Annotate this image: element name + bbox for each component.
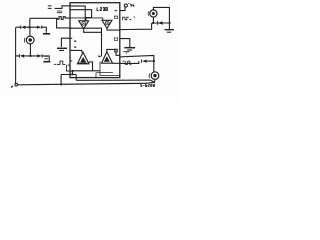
- wire A1 output: [84, 29, 102, 33]
- diode D8: [141, 60, 143, 63]
- wire J1 row: [73, 70, 101, 72]
- icon pulse right mid: [123, 52, 129, 54]
- pin box right 1: [114, 16, 117, 18]
- wire bottom edge extra: [97, 72, 114, 74]
- icon pulse right top: [123, 17, 135, 20]
- wire diode row 1: [16, 27, 47, 33]
- node J1: [72, 70, 74, 72]
- caption S-6298: [141, 84, 155, 86]
- wire riser to Vin2: [29, 18, 31, 27]
- wire B1 output: [89, 62, 93, 71]
- wire Vin3 pulse into box: [54, 61, 73, 71]
- arrow into B2: [98, 55, 101, 57]
- diode D4: [37, 54, 41, 57]
- ground left mid: [57, 47, 67, 49]
- driver A1 triangle (down): [79, 21, 89, 29]
- wire enable branch down: [57, 18, 70, 28]
- ground bar row1: [43, 33, 50, 35]
- motor M1 left: [26, 36, 34, 44]
- wire load stub: [152, 17, 154, 23]
- wire input2 inside to A2: [70, 18, 103, 20]
- driver B2 triangle (up): [102, 52, 113, 63]
- node junction row2: [29, 55, 31, 57]
- pin nub left y61: [70, 61, 72, 62]
- node junction top right: [152, 22, 154, 24]
- icon dashes bottom left: [44, 56, 48, 58]
- wire rail drop: [60, 75, 62, 85]
- ground right mid: [124, 47, 135, 49]
- op-amp U1 L298 package outline: [70, 3, 120, 78]
- wire Vs pin to terminal: [120, 7, 125, 11]
- pin box right 3: [114, 49, 117, 52]
- pin nub left y38: [70, 38, 72, 39]
- pin nub left y50: [70, 50, 72, 51]
- wire ground rail bottom: [18, 83, 146, 85]
- pin nub left y28: [70, 28, 72, 29]
- wire M1 stubs: [29, 27, 32, 56]
- label L298: [97, 8, 107, 11]
- wire inner bottom lines: [96, 62, 120, 78]
- wire B2 output to pin: [113, 62, 120, 64]
- wire GND pin left: [61, 38, 70, 47]
- node Vin1 input waveform: [48, 6, 52, 8]
- diode D1: [20, 26, 22, 29]
- diode D7: [157, 21, 159, 25]
- label +Vs: [130, 4, 134, 7]
- motor M3 bottom right: [151, 72, 159, 80]
- wire M2 top to rail: [153, 7, 169, 29]
- pin nub inner x75: [74, 41, 76, 42]
- wire A2 output to OUT pin: [107, 29, 120, 31]
- wire icon to J node: [71, 71, 73, 74]
- wire OUT4 to load: [120, 55, 154, 71]
- node rail junction: [60, 83, 62, 85]
- wire B2 input bracket: [107, 49, 120, 55]
- pin arrow Vs: [115, 10, 118, 12]
- wire input1b inside: [70, 10, 92, 21]
- driver A2 triangle (down): [102, 20, 112, 28]
- wire Vin2 with pulse train: [30, 17, 70, 20]
- wire GND pin right: [120, 39, 130, 48]
- pin box right 2: [114, 38, 117, 40]
- node J2: [71, 73, 73, 75]
- terminal +Vs: [124, 4, 127, 7]
- diode D3: [18, 54, 20, 57]
- wire input1 inside: [70, 6, 85, 21]
- wire OUT3 to load: [120, 23, 152, 29]
- wire pin row 2: [120, 61, 139, 63]
- node junction row1: [28, 26, 30, 28]
- node junction right mid: [153, 60, 155, 62]
- wire supply rail left vertical: [15, 28, 17, 84]
- wire diode row top right: [152, 22, 171, 24]
- ground bar row2: [43, 61, 50, 63]
- wire diode row 2: [16, 56, 50, 61]
- terminal bottom left: [15, 83, 18, 86]
- wire pin to internal bus: [70, 28, 102, 56]
- ground top right: [165, 29, 174, 31]
- node Vin2 waveform icon: [57, 11, 62, 13]
- wire sense line: [76, 79, 150, 81]
- driver B1 triangle (up): [78, 52, 90, 64]
- diode D2: [37, 26, 41, 29]
- icon pulse right mid 2: [123, 61, 132, 64]
- wire B1 input: [70, 50, 82, 52]
- wire funnel joints: [146, 79, 155, 83]
- motor M2 top right: [150, 10, 157, 17]
- wire J2 row: [61, 74, 76, 80]
